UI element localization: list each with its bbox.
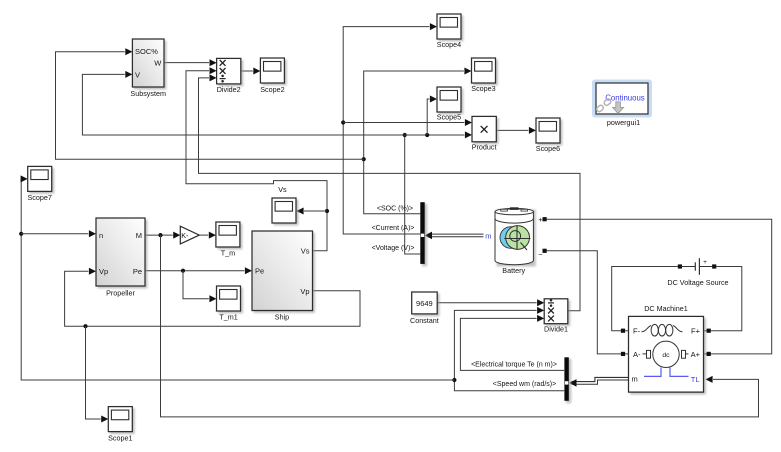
wire: Electrical torque Te signal to Divide1 input 3 — [460, 318, 564, 370]
scope T_m — [218, 224, 243, 250]
wire: Battery - to DC Machine A- — [547, 251, 629, 354]
svg-text:V: V — [135, 70, 140, 79]
svg-text:powergui1: powergui1 — [607, 118, 640, 127]
node Voltage junction — [403, 133, 407, 137]
wire: DC Machine m measurement bus to Bus Selector bar — [572, 377, 629, 381]
wire: Speed branch left across page up to Scope7 and Propeller n — [21, 179, 454, 380]
node Scope5 branch junction — [425, 133, 429, 137]
svg-text:Pe: Pe — [133, 267, 142, 276]
svg-text:DC Machine1: DC Machine1 — [644, 304, 688, 313]
wire: Propeller M output to Gain — [145, 234, 173, 236]
svg-text:Scope5: Scope5 — [437, 112, 461, 121]
svg-text:W: W — [154, 58, 162, 67]
wire: Current branch to Product input 1 — [343, 122, 464, 124]
svg-text:<Current (A)>: <Current (A)> — [372, 225, 415, 232]
battery globe logo — [500, 227, 522, 249]
scope Scope1 — [110, 408, 135, 434]
svg-text:T_m: T_m — [221, 249, 235, 258]
wire: Battery + to DC Machine A+ — [547, 219, 772, 354]
svg-text:Scope3: Scope3 — [471, 84, 495, 93]
scope T_m1 — [218, 288, 243, 314]
dc machine A- port — [621, 352, 625, 356]
svg-text:Scope1: Scope1 — [108, 433, 132, 442]
svg-text:Divide2: Divide2 — [217, 85, 241, 94]
wire: Voltage branch up to Scope5 — [427, 99, 429, 135]
wire: M branch down-around to DC Machine TL input — [161, 235, 759, 417]
wire: Gain output to T_m scope — [199, 234, 208, 236]
svg-text:Vs: Vs — [278, 185, 287, 194]
wire: Voltage branch left to Subsystem V input — [82, 74, 404, 135]
svg-text:n: n — [99, 231, 103, 240]
wire: Constant 9649 to Divide1 input 1 — [437, 302, 536, 304]
wire: DC Voltage Source right terminal down to DC Machine F+ — [704, 267, 742, 331]
wire: SOC signal from Bus Selector to Scope3 (vertical riser x=363.7) — [364, 71, 464, 214]
scope Scope2 — [262, 60, 287, 86]
dc machine field coil — [642, 326, 652, 332]
svg-text:TL: TL — [691, 375, 700, 384]
svg-text:Pe: Pe — [255, 267, 264, 276]
svg-text:F+: F+ — [691, 327, 701, 336]
svg-text:<Electrical torque Te (n m)>: <Electrical torque Te (n m)> — [471, 361, 557, 368]
dc machine F+ port — [707, 329, 711, 333]
svg-text:Subsystem: Subsystem — [130, 89, 166, 98]
node Speed branch junction — [452, 378, 456, 382]
svg-text:Vp: Vp — [99, 267, 108, 276]
svg-text:M: M — [136, 231, 142, 240]
node Vp branch junction — [83, 324, 87, 328]
wire: SOC branch to Subsystem SOC% input — [56, 52, 364, 160]
scope Scope5 — [439, 89, 464, 115]
svg-text:T_m1: T_m1 — [219, 313, 237, 322]
svg-text:A-: A- — [633, 350, 641, 359]
scope Scope4 — [439, 16, 464, 42]
svg-text:<Voltage (V)>: <Voltage (V)> — [372, 245, 415, 252]
node Pe branch junction — [181, 269, 185, 273]
wire: Propeller Pe output to Ship Pe input — [145, 270, 244, 272]
subsystem Propeller — [98, 220, 148, 289]
powergui broken-link icon — [596, 98, 612, 113]
svg-text:<Speed wm (rad/s)>: <Speed wm (rad/s)> — [493, 381, 556, 388]
divide block Divide1 — [546, 300, 570, 326]
svg-text:<SOC (%)>: <SOC (%)> — [377, 205, 413, 212]
node M branch junction — [158, 233, 162, 237]
svg-text:Battery: Battery — [502, 266, 525, 275]
wire: Divide1 output up-and-left to Divide2 input 3 — [199, 78, 581, 311]
wire: Ship Vp output loop back to Propeller Vp input — [65, 271, 360, 326]
node SOC branch junction — [362, 157, 366, 161]
bus creator bar (machine measurements) — [566, 359, 571, 403]
dc machine armature circle — [643, 353, 647, 355]
svg-text:Divide1: Divide1 — [544, 325, 568, 334]
svg-text:SOC%: SOC% — [135, 47, 158, 56]
wire: Vp branch down to Scope1 — [86, 326, 101, 419]
svg-text:Scope6: Scope6 — [536, 144, 560, 153]
scope Scope3 — [473, 60, 498, 86]
svg-text:DC Voltage Source: DC Voltage Source — [667, 278, 728, 287]
svg-text:m: m — [632, 375, 638, 384]
scope Scope7 — [29, 168, 54, 194]
svg-text:Vp: Vp — [300, 287, 309, 296]
svg-text:A+: A+ — [691, 350, 701, 359]
svg-text:Vs: Vs — [301, 247, 310, 256]
wire: Subsystem W output to Divide2 input 1 — [164, 62, 209, 64]
dc machine A+ port — [707, 352, 711, 356]
svg-text:Scope2: Scope2 — [260, 85, 284, 94]
divide block Divide2 — [218, 60, 243, 86]
gain block K- — [180, 226, 199, 244]
wire: Product output to Scope6 — [496, 129, 528, 131]
wire: Speed wm signal from Bus Creator bar to Divide1 input 2 — [454, 310, 564, 390]
wire: Divide2 output to Scope2 — [241, 70, 253, 72]
dc machine F- port — [621, 329, 625, 333]
svg-text:Scope7: Scope7 — [28, 193, 52, 202]
product block Product — [474, 118, 499, 144]
constant block 9649 — [413, 294, 439, 317]
svg-text:Product: Product — [472, 142, 497, 151]
wire: Voltage signal from Bus Selector riser x=404.7 — [405, 135, 421, 254]
svg-text:m: m — [485, 231, 491, 240]
wire: Ship Vs output up-around to Divide2 input 2 — [186, 71, 327, 251]
wire: DC Machine F- up to DC Voltage Source left terminal — [612, 267, 678, 331]
node n-input branch junction — [19, 232, 23, 236]
scope Scope6 — [538, 120, 563, 146]
battery Battery — [495, 207, 536, 266]
subsystem Ship — [254, 233, 315, 313]
svg-text:K-: K- — [181, 231, 189, 240]
svg-text:dc: dc — [662, 352, 670, 359]
wire: Vs branch into Vs scope (right side input) — [304, 210, 327, 212]
wire: Speed branch to Propeller n input — [21, 233, 88, 235]
svg-text:Constant: Constant — [410, 316, 439, 325]
wire: Current signal from Bus Selector to Scope4 (vertical riser x=343.2) — [343, 27, 429, 234]
dc voltage source DC Voltage Source — [678, 264, 682, 268]
node Current branch junction — [341, 120, 345, 124]
dc machine blue commutator wires — [644, 368, 661, 377]
svg-text:Scope4: Scope4 — [437, 40, 461, 49]
dc machine DC Machine1 — [630, 318, 706, 395]
powergui down-arrow icon — [613, 102, 624, 114]
wire: Battery m measurement bus to Bus Selector — [428, 233, 484, 235]
powergui block powergui1 — [592, 80, 652, 118]
bus selector bar (battery measurements) — [422, 204, 427, 266]
svg-text:F-: F- — [633, 327, 641, 336]
svg-text:Ship: Ship — [275, 313, 289, 322]
wire: Voltage branch right to Product input 2 — [405, 134, 465, 136]
svg-text:Propeller: Propeller — [106, 289, 135, 298]
node Vs scope branch junction — [325, 209, 329, 213]
svg-text:9649: 9649 — [416, 299, 433, 308]
wire: Pe branch down to T_m1 scope — [183, 271, 209, 299]
subsystem Subsystem — [134, 41, 166, 90]
svg-text:+: + — [703, 259, 707, 266]
